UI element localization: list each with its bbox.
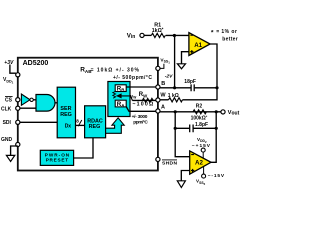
wire zigzag between RB RA [113,92,116,99]
wire node A line [160,111,221,113]
op-amp A2 [190,151,211,174]
pin A [156,109,160,113]
svg-text:RB: RB [117,86,125,93]
svg-text:+/- 3000: +/- 3000 [132,114,148,120]
svg-text:CLK: CLK [1,107,12,113]
wire [74,138,93,158]
svg-text:RA: RA [117,101,125,108]
svg-text:CS: CS [5,98,13,104]
svg-text:REG: REG [89,124,101,130]
svg-text:SHDN: SHDN [162,161,177,167]
svg-text:Vout: Vout [228,110,240,116]
ground [177,64,185,69]
register RDAC REG [85,106,106,138]
bus wire 8 [76,124,85,126]
svg-text:VSS1: VSS1 [160,57,170,64]
ground [6,155,14,161]
svg-text:100kΩ*: 100kΩ* [191,114,208,122]
pin VDD1 [16,73,20,77]
svg-text:VDD2: VDD2 [197,137,207,144]
chip AD5200 outline [18,58,158,171]
svg-text:= 1% or: = 1% or [216,29,237,35]
wire A2 minus rail [175,112,190,157]
svg-text:better: better [222,36,237,42]
node junction dots B line [173,86,176,89]
svg-text:~100Ω: ~100Ω [132,102,154,108]
svg-text:-2V: -2V [165,74,173,80]
wire A2 plus input [181,171,189,181]
wire B internal [126,86,156,88]
svg-text:A: A [161,104,165,110]
svg-text:Dx: Dx [65,124,72,130]
pin W [156,98,160,102]
potentiometer block [108,82,130,117]
svg-text:= 10kΩ +/- 30%: = 10kΩ +/- 30% [91,67,140,73]
ground [177,181,185,188]
node junction dots A line [174,110,177,113]
wire W internal [133,99,156,101]
wire A2 output rail [211,112,216,163]
svg-text:8: 8 [76,119,79,124]
wire A internal [126,107,156,112]
svg-text:AD5200: AD5200 [23,60,49,67]
wire [166,34,189,36]
svg-text:REG: REG [60,112,72,118]
wire A1 plus input [182,52,189,64]
wiper arrow [121,96,133,101]
resistor RA [115,100,126,107]
wire [20,121,57,123]
wire A1 output rail [160,44,217,100]
pin VSS2 [203,166,205,174]
svg-text:+/- 500ppm/°C: +/- 500ppm/°C [113,75,152,81]
svg-text:GND: GND [1,137,13,143]
svg-text:Vin: Vin [127,33,136,40]
svg-text:VSS2: VSS2 [196,179,206,186]
svg-text:VDD1: VDD1 [3,77,14,84]
wire [10,65,16,74]
pin B [156,85,160,89]
svg-text:*: * [211,29,214,36]
wire node B line [160,87,217,89]
svg-text:~+15V: ~+15V [192,143,211,149]
svg-text:+3V: +3V [4,60,14,66]
svg-text:B: B [161,81,165,87]
svg-text:A1: A1 [194,42,202,49]
svg-text:VW: VW [130,94,136,100]
svg-text:SER: SER [60,106,71,112]
svg-text:ppm/°C: ppm/°C [133,120,148,126]
pin SHDN [156,157,160,161]
arrow RDAC to pot [106,118,125,134]
svg-text:R2: R2 [196,103,203,109]
svg-text:1.8pF: 1.8pF [195,122,208,128]
op-amp A1 [189,33,210,56]
inverter [21,94,30,105]
svg-text:W: W [160,93,166,99]
node Vout [221,110,225,114]
register SER REG [57,87,75,138]
svg-text:~-15V: ~-15V [208,173,225,179]
node feedback junction [173,34,176,37]
wire [11,146,18,155]
svg-text:18pF: 18pF [184,79,196,85]
wire [55,102,57,104]
svg-text:RW: RW [139,92,148,98]
wire feedback rail [174,36,176,88]
wire [33,99,36,101]
pin VSS1 [156,66,160,70]
svg-text:SDI: SDI [3,120,12,126]
resistor RW zigzag [142,98,153,102]
svg-text:PRESET: PRESET [46,158,69,163]
wire [144,34,151,36]
pin VDD2 [202,151,204,158]
block PWR-ON PRESET [40,150,73,165]
resistor RB [115,85,126,92]
AND gate [36,95,55,112]
wire [20,107,36,109]
svg-text:A2: A2 [195,159,203,166]
